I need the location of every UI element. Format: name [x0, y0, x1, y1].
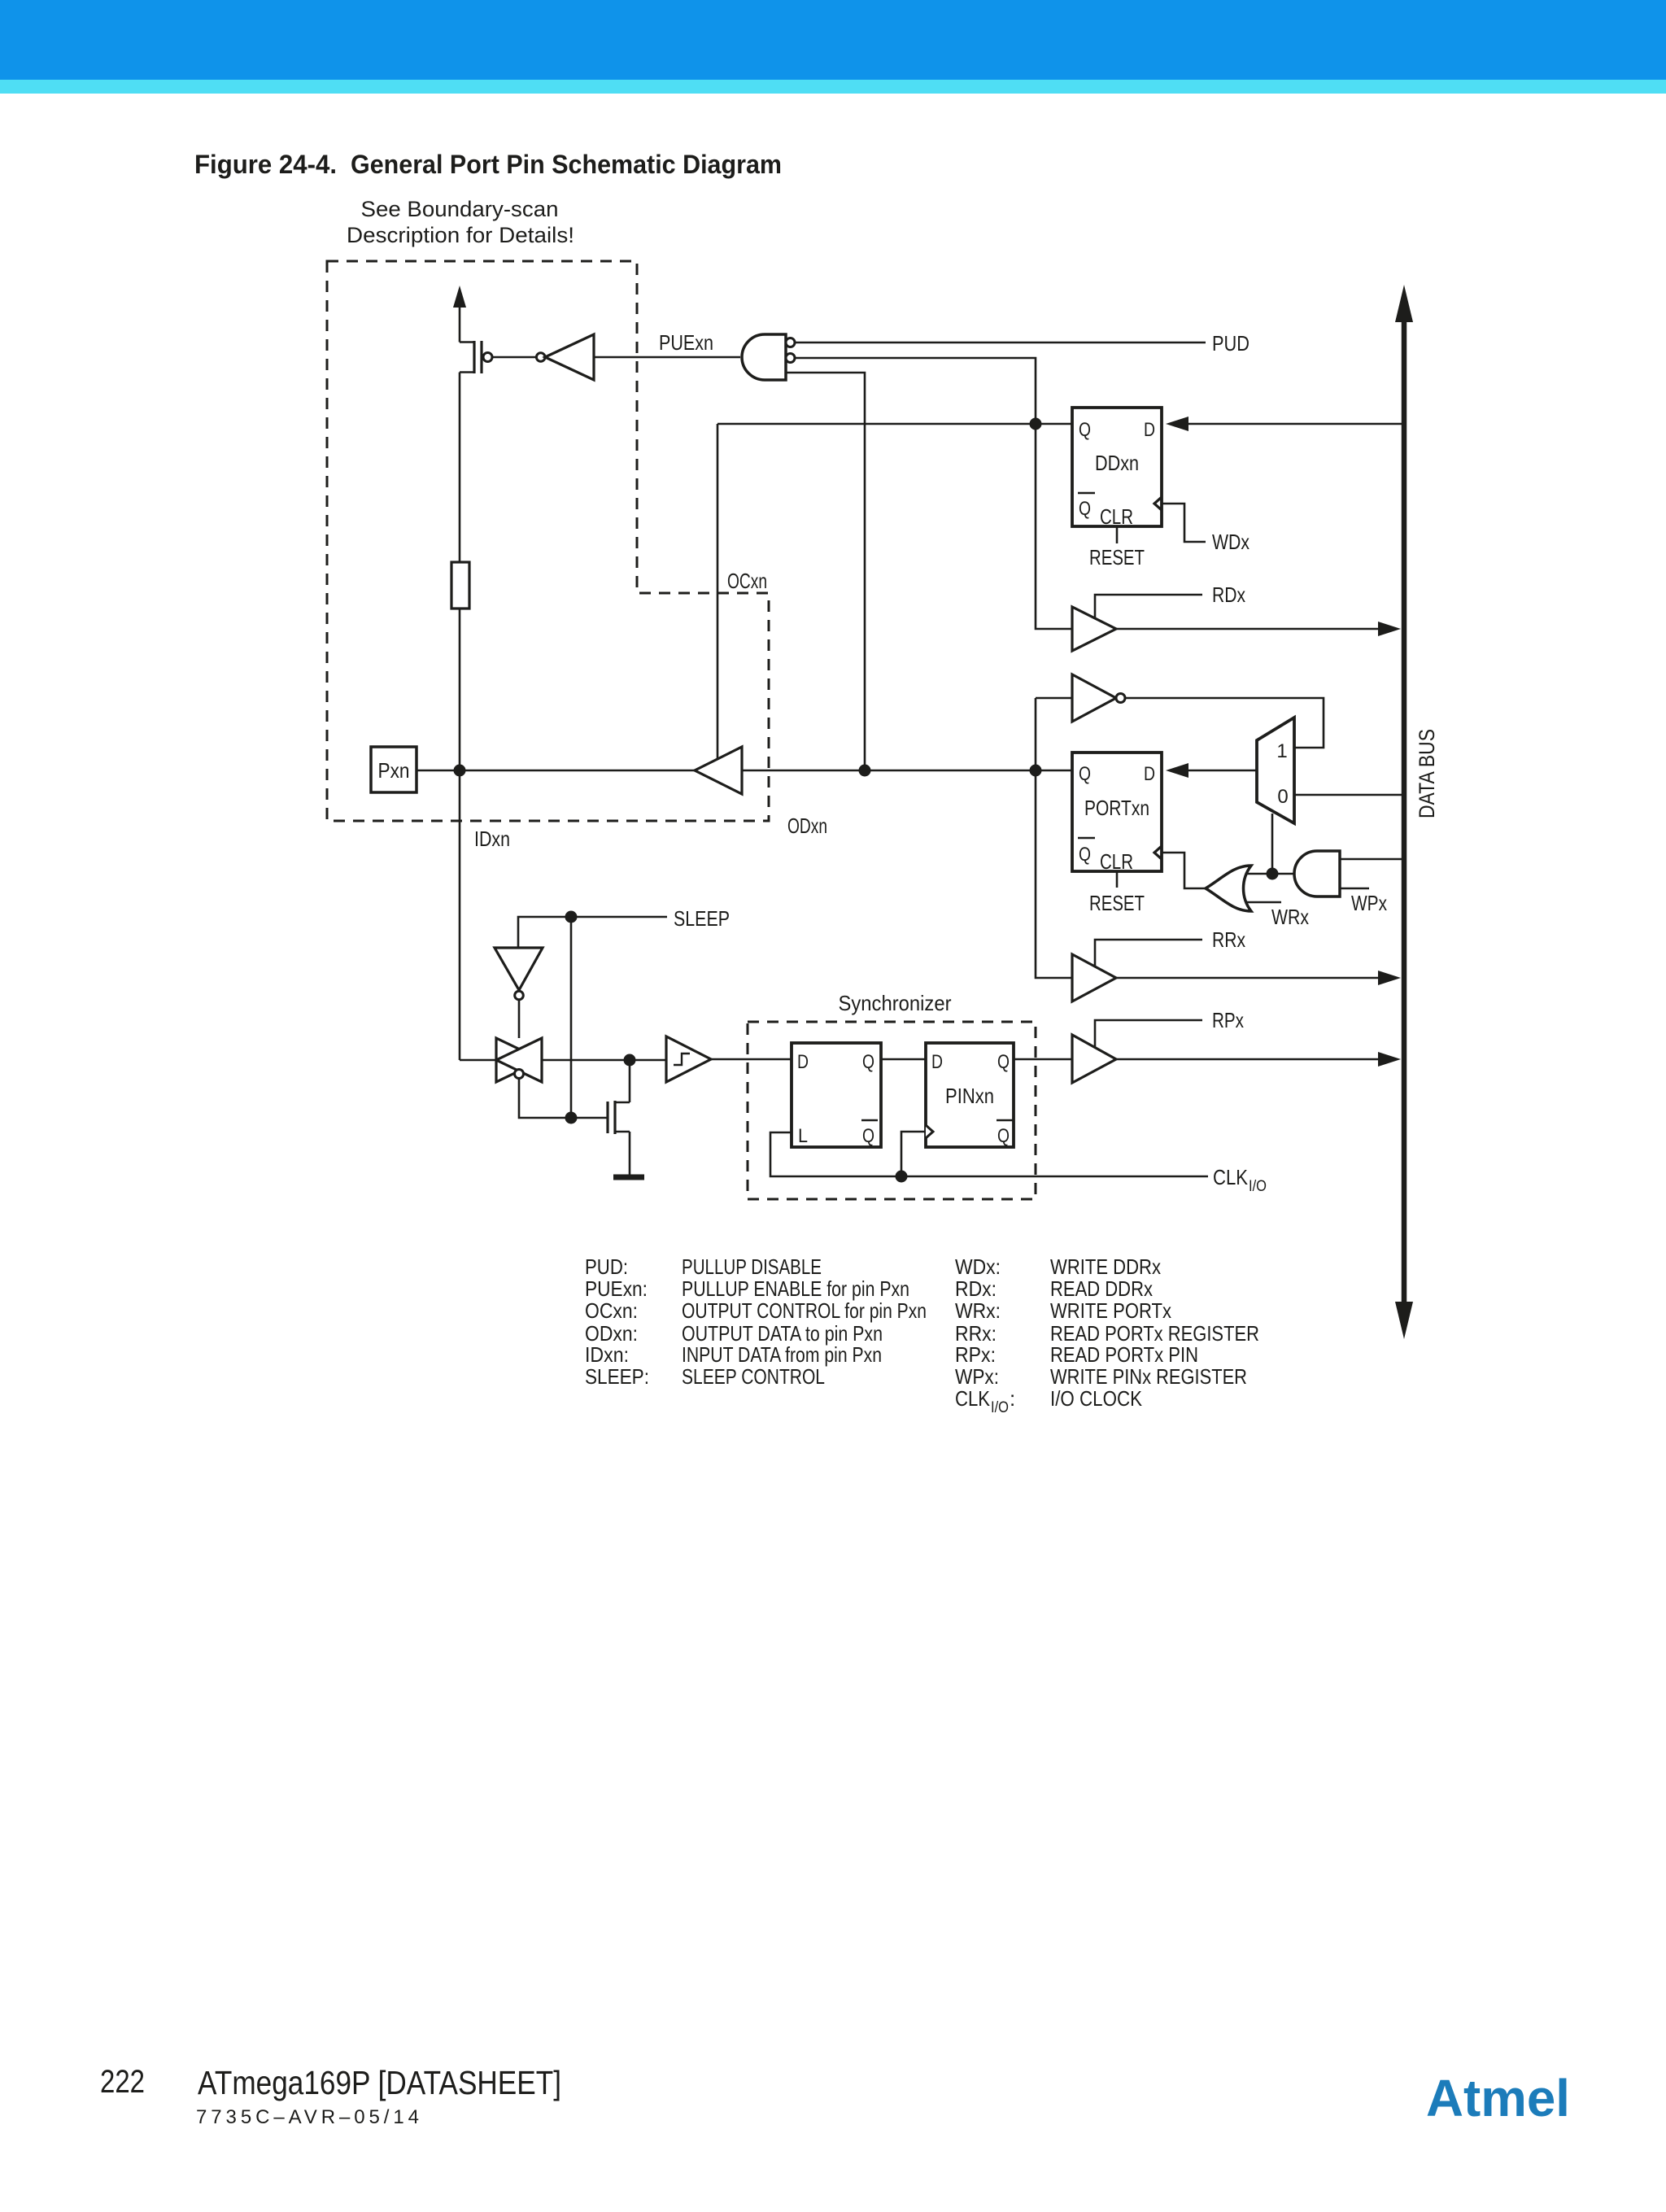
svg-text:WDx: WDx [1212, 530, 1249, 554]
svg-text:CLR: CLR [1100, 504, 1133, 529]
svg-text:DATA BUS: DATA BUS [1415, 729, 1439, 818]
svg-text:PUD: PUD [1212, 331, 1249, 356]
svg-text:READ DDRx: READ DDRx [1050, 1276, 1153, 1301]
svg-text:OUTPUT CONTROL for pin Pxn: OUTPUT CONTROL for pin Pxn [682, 1298, 927, 1323]
svg-text:Q: Q [1079, 763, 1091, 785]
svg-text:PUExn: PUExn [659, 330, 713, 355]
svg-text:PUExn:: PUExn: [585, 1276, 648, 1301]
svg-text:IDxn: IDxn [474, 827, 510, 851]
svg-text:RRx: RRx [1212, 927, 1245, 952]
svg-text:WRITE DDRx: WRITE DDRx [1050, 1254, 1161, 1279]
svg-text:PULLUP DISABLE: PULLUP DISABLE [682, 1254, 822, 1279]
svg-text:DDxn: DDxn [1095, 451, 1139, 475]
svg-text:WRx:: WRx: [955, 1298, 1001, 1323]
svg-text:CLK: CLK [1213, 1165, 1249, 1189]
svg-text:ATmega169P [DATASHEET]: ATmega169P [DATASHEET] [198, 2064, 561, 2101]
svg-text:1: 1 [1276, 740, 1287, 762]
svg-text:PORTxn: PORTxn [1084, 796, 1149, 820]
svg-text:RDx: RDx [1212, 582, 1245, 607]
svg-text:Q: Q [997, 1125, 1010, 1147]
svg-text:Description for Details!: Description for Details! [347, 223, 574, 247]
svg-text:I/O: I/O [991, 1399, 1009, 1416]
svg-text:See Boundary-scan: See Boundary-scan [361, 197, 559, 221]
svg-text:Figure 24-4.: Figure 24-4. [194, 150, 337, 179]
svg-text:CLK: CLK [955, 1386, 991, 1411]
svg-text:OCxn:: OCxn: [585, 1298, 638, 1323]
svg-text:General Port Pin Schematic Dia: General Port Pin Schematic Diagram [351, 150, 782, 179]
svg-text:I/O CLOCK: I/O CLOCK [1050, 1386, 1143, 1411]
svg-text::: : [1010, 1386, 1015, 1411]
svg-text:INPUT DATA from pin Pxn: INPUT DATA from pin Pxn [682, 1342, 882, 1367]
svg-text:PINxn: PINxn [945, 1084, 994, 1108]
svg-text:PUD:: PUD: [585, 1254, 628, 1279]
svg-text:WDx:: WDx: [955, 1254, 1001, 1279]
svg-text:RESET: RESET [1089, 891, 1145, 915]
svg-text:Synchronizer: Synchronizer [839, 991, 952, 1015]
svg-text:7735C–AVR–05/14: 7735C–AVR–05/14 [196, 2106, 419, 2128]
svg-text:RESET: RESET [1089, 545, 1145, 569]
svg-text:I/O: I/O [1249, 1178, 1267, 1195]
svg-text:222: 222 [100, 2064, 145, 2100]
svg-text:RDx:: RDx: [955, 1276, 997, 1301]
svg-text:Q: Q [862, 1051, 874, 1073]
svg-text:PULLUP ENABLE for pin Pxn: PULLUP ENABLE for pin Pxn [682, 1276, 909, 1301]
svg-text:Pxn: Pxn [378, 758, 410, 783]
svg-text:Q: Q [997, 1051, 1010, 1073]
svg-text:RPx:: RPx: [955, 1342, 996, 1367]
svg-text:D: D [797, 1051, 809, 1073]
svg-text:WRITE PINx REGISTER: WRITE PINx REGISTER [1050, 1364, 1247, 1389]
svg-text:Atmel: Atmel [1426, 2069, 1570, 2127]
svg-text:READ PORTx PIN: READ PORTx PIN [1050, 1342, 1198, 1367]
svg-text:WRx: WRx [1271, 905, 1309, 929]
svg-text:D: D [931, 1051, 943, 1073]
svg-text:SLEEP CONTROL: SLEEP CONTROL [682, 1364, 825, 1389]
svg-text:Q: Q [1079, 419, 1091, 441]
svg-text:D: D [1144, 763, 1155, 785]
svg-text:WRITE PORTx: WRITE PORTx [1050, 1298, 1171, 1323]
svg-text:OCxn: OCxn [727, 569, 767, 593]
svg-text:L: L [798, 1125, 808, 1147]
svg-text:Q: Q [1079, 498, 1091, 520]
svg-text:Q: Q [1079, 844, 1091, 866]
svg-text:CLR: CLR [1100, 849, 1133, 874]
svg-text:D: D [1144, 419, 1155, 441]
svg-text:WPx: WPx [1351, 891, 1387, 915]
svg-text:WPx:: WPx: [955, 1364, 999, 1389]
svg-text:SLEEP:: SLEEP: [585, 1364, 649, 1389]
svg-text:SLEEP: SLEEP [674, 906, 730, 931]
svg-text:ODxn: ODxn [787, 814, 827, 838]
svg-text:Q: Q [862, 1125, 874, 1147]
svg-text:IDxn:: IDxn: [585, 1342, 629, 1367]
svg-text:0: 0 [1277, 786, 1288, 808]
svg-text:RPx: RPx [1212, 1008, 1244, 1032]
